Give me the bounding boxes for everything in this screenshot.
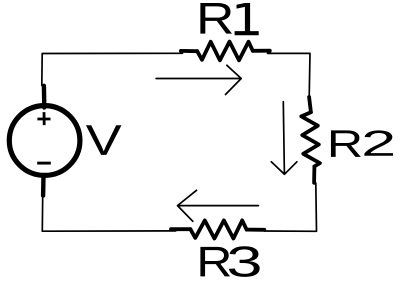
resistor R3 left lead [171,227,190,231]
label R3 digit 3 [229,246,260,277]
resistor R2 bottom lead stub [312,166,316,182]
current arrow I3 (bottom, pointing left) [178,190,259,221]
label R2 letter R [331,130,361,157]
resistor R1 zigzag [197,42,253,61]
label R2 digit 2 [364,130,393,155]
plus sign [37,112,50,125]
resistor R2 zigzag [301,112,320,166]
label R3 letter R [200,247,230,277]
minus sign [37,162,51,165]
resistor R3 right lead [247,228,265,232]
label R1 letter R [200,3,232,34]
voltage source bottom lead stub [41,176,46,196]
label V [86,125,121,155]
voltage source top lead stub [42,86,47,108]
resistor R1 right lead [253,49,270,53]
current arrow I2 (right side, pointing down) [271,102,297,175]
resistor R2 top lead stub [309,97,311,112]
wire from voltage source top to R1 (top-left corner) [42,53,183,85]
wire from R2 to R3 (bottom-right corner) [265,183,317,231]
voltage source V: circle [9,106,80,176]
resistor R1 left lead [181,49,197,53]
resistor R3 zigzag [190,220,246,238]
wire from R1 to R2 (top-right corner) [268,53,311,96]
current arrow I1 (top, pointing right) [156,65,241,94]
label R1 digit 1 [235,3,259,35]
wire from R3 to voltage source bottom (bottom-left corner) [42,196,176,231]
